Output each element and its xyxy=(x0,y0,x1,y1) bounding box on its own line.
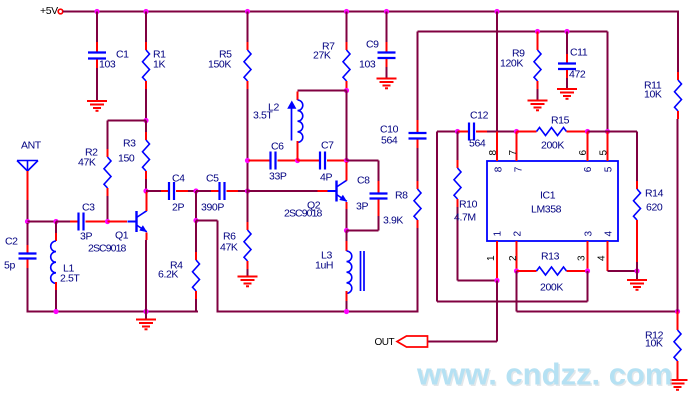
node L3 bottom / rail xyxy=(344,309,349,314)
svg-text:103: 103 xyxy=(99,59,116,71)
node top rail / pin8 drop xyxy=(494,9,499,14)
pin R14 top lead xyxy=(636,181,638,189)
node ANT / C2 / base line xyxy=(25,219,30,224)
wire C9 to ground xyxy=(386,67,388,78)
node C7 / Q2 collector / C8 xyxy=(344,158,349,163)
wire C9 top xyxy=(386,12,388,43)
svg-text:3P: 3P xyxy=(356,201,368,213)
antenna ANT symbol xyxy=(17,161,38,172)
svg-text:7: 7 xyxy=(508,150,519,156)
pin C4 left lead xyxy=(161,190,169,192)
pin C5 right lead xyxy=(227,190,239,192)
wire Q2 base from R5 node xyxy=(249,190,318,192)
svg-text:C4: C4 xyxy=(172,173,185,185)
wire feedback up to pin3 xyxy=(587,271,589,302)
svg-text:C5: C5 xyxy=(206,173,219,185)
wire C8 top horiz xyxy=(347,160,379,162)
resistor R3 xyxy=(143,140,150,171)
svg-text:120K: 120K xyxy=(500,58,523,70)
pin L3 bottom lead xyxy=(346,291,348,301)
capacitor C8 xyxy=(370,194,388,199)
pin Q2 base lead xyxy=(318,190,328,192)
wire R10 top xyxy=(457,132,459,161)
svg-text:+5V: +5V xyxy=(40,5,58,17)
wire Q1 emitter down xyxy=(145,240,147,312)
wire emitter rail xyxy=(218,311,418,313)
pin R8 bottom lead xyxy=(417,220,419,228)
transistor Q2 xyxy=(328,180,348,201)
svg-text:3.5T: 3.5T xyxy=(253,110,273,122)
wire C5 to R5 column xyxy=(238,190,248,192)
node top rail / R7 xyxy=(344,9,349,14)
svg-text:620: 620 xyxy=(646,202,663,214)
ground below C11 xyxy=(557,89,577,99)
wire C8 top vert xyxy=(378,161,380,182)
wire R3 bottom xyxy=(145,179,147,191)
pin Q1 collector lead xyxy=(146,192,148,211)
arrow on L2 (tuning) xyxy=(287,101,296,141)
pin L2 bottom lead xyxy=(297,141,299,161)
inductor L2 xyxy=(298,100,303,142)
resistor R12 xyxy=(674,330,681,361)
wire pin6 node to pin5 node xyxy=(588,131,608,133)
wire rail down to pin5 xyxy=(607,32,609,132)
pin C10 bottom lead xyxy=(417,140,419,149)
pin C6 left lead xyxy=(249,160,271,162)
node Q2 emitter / C8 bottom / L3 xyxy=(344,228,349,233)
svg-text:5: 5 xyxy=(604,166,615,172)
capacitor C6 xyxy=(271,152,276,170)
node R11 / R12 / pin2 rail xyxy=(675,309,680,314)
capacitor C1 xyxy=(88,53,106,59)
node top rail / R1 xyxy=(143,9,148,14)
power +5V terminal xyxy=(58,9,63,14)
svg-text:R3: R3 xyxy=(123,138,136,150)
svg-text:103: 103 xyxy=(359,59,376,71)
svg-text:390P: 390P xyxy=(201,202,224,214)
node top rail / R5 xyxy=(245,9,250,14)
node R4 top xyxy=(193,218,198,223)
wire pin1 to OUT xyxy=(428,341,497,343)
resistor R8 xyxy=(414,189,421,220)
svg-text:C1: C1 xyxy=(116,49,129,61)
pin L2 top lead xyxy=(297,92,299,101)
pin R9 bottom lead xyxy=(537,81,539,89)
wire R2 bottom to base line xyxy=(107,196,109,222)
svg-text:472: 472 xyxy=(569,69,586,81)
svg-text:R10: R10 xyxy=(459,199,478,211)
inductor L1 xyxy=(51,241,56,283)
pin R6 bottom lead xyxy=(247,261,249,269)
pin R10 top lead xyxy=(457,160,459,168)
svg-text:5p: 5p xyxy=(4,260,15,272)
svg-text:564: 564 xyxy=(381,135,398,147)
resistor R15 xyxy=(537,128,567,136)
pin C9 bottom lead xyxy=(386,59,388,67)
svg-text:6: 6 xyxy=(583,166,594,172)
svg-text:4: 4 xyxy=(604,231,615,237)
wire C2 bottom xyxy=(27,268,29,313)
resistor R9 xyxy=(534,50,541,81)
transistor Q1 xyxy=(128,211,148,232)
svg-text:8: 8 xyxy=(494,166,505,172)
wire node to C5 xyxy=(196,190,211,192)
wire Q2 emitter down xyxy=(346,209,348,231)
pin R7 bottom lead xyxy=(346,81,348,90)
pin C6 right lead xyxy=(278,160,298,162)
resistor R6 xyxy=(244,230,251,261)
pin L3 top lead xyxy=(346,241,348,251)
node pin1 / R10 bottom xyxy=(494,278,499,283)
svg-text:3: 3 xyxy=(584,231,595,237)
wire R1 bottom to node xyxy=(145,89,147,120)
svg-text:2P: 2P xyxy=(172,202,184,214)
pin C1 top lead xyxy=(96,42,98,52)
wire R11 bottom run xyxy=(677,119,679,312)
svg-text:4.7M: 4.7M xyxy=(454,212,476,224)
node R9 top xyxy=(535,29,540,34)
capacitor C5 xyxy=(220,182,225,200)
wire collector node to C4 xyxy=(146,190,161,192)
resistor R4 xyxy=(193,260,200,291)
svg-text:R13: R13 xyxy=(541,251,560,263)
pin L1 bottom lead xyxy=(55,282,57,290)
wire C11 to ground xyxy=(566,78,568,89)
wire C10 to R8 xyxy=(417,148,419,181)
pin R1 top lead xyxy=(145,42,147,50)
node R10 top / C12 left xyxy=(455,129,460,134)
svg-text:R15: R15 xyxy=(551,115,570,127)
capacitor C9 xyxy=(378,53,396,59)
wire R5 top xyxy=(247,12,249,43)
pin C12 right lead xyxy=(476,131,487,133)
svg-text:27K: 27K xyxy=(313,50,331,62)
pin C8 bottom lead xyxy=(378,200,380,217)
node top rail / C1 xyxy=(94,9,99,14)
pin Q1 emitter lead xyxy=(146,233,148,241)
svg-text:5: 5 xyxy=(599,150,610,156)
wire top +5V rail xyxy=(63,11,679,13)
wire pin2 rail right xyxy=(517,311,678,313)
pin R10 bottom lead xyxy=(457,199,459,207)
wire R10 bottom horiz xyxy=(458,280,498,282)
resistor R10 xyxy=(454,168,461,199)
svg-text:6: 6 xyxy=(578,150,589,156)
watermark www.cndzz.com xyxy=(416,357,674,394)
node top rail / C9 xyxy=(384,9,389,14)
wire R3 top xyxy=(145,121,147,133)
pin C3 left lead xyxy=(70,221,79,223)
svg-text:3.9K: 3.9K xyxy=(383,215,403,227)
svg-text:C9: C9 xyxy=(366,39,379,51)
ground below C1 xyxy=(87,101,107,111)
pin ANT lead xyxy=(27,171,29,200)
wire R4 bypass horiz xyxy=(196,220,218,222)
resistor R1 xyxy=(143,50,150,81)
pin R1 bottom lead xyxy=(145,81,147,89)
wire C4 to node xyxy=(188,190,196,192)
wire R7 node down to C7 xyxy=(346,91,348,161)
pin C10 top lead xyxy=(417,120,419,133)
wire C10 top vert xyxy=(417,32,419,121)
wire R10 bottom vert xyxy=(457,207,459,281)
pin 5 stub xyxy=(607,132,609,162)
svg-text:C12: C12 xyxy=(470,110,489,122)
svg-text:2: 2 xyxy=(513,231,524,237)
svg-text:3: 3 xyxy=(577,255,588,261)
wire pin4 to ground node xyxy=(608,270,638,272)
wire R9 to ground xyxy=(537,89,539,100)
pin R11 bottom lead xyxy=(677,111,679,119)
pin C8 top lead xyxy=(378,181,380,193)
svg-text:C6: C6 xyxy=(271,141,284,153)
pin R4 bottom lead xyxy=(195,291,197,299)
wire C1 to ground xyxy=(96,68,98,100)
svg-text:C11: C11 xyxy=(570,47,588,59)
wire R6 to ground xyxy=(247,269,249,276)
pin R5 bottom lead xyxy=(247,81,249,89)
svg-text:1: 1 xyxy=(493,231,504,237)
svg-text:C3: C3 xyxy=(82,202,95,214)
ground below pin4/R14 xyxy=(627,280,647,290)
capacitor C7 xyxy=(320,152,325,170)
wire R4 node down xyxy=(195,191,197,221)
pin 7 stub xyxy=(516,132,518,162)
wire R4 bottom xyxy=(195,299,197,313)
node R5/R6/C5/base xyxy=(245,188,250,193)
ground below C9 xyxy=(377,79,397,89)
wire L1 top xyxy=(55,222,57,234)
wire C8 bottom horiz xyxy=(347,230,379,232)
svg-text:2SC9018: 2SC9018 xyxy=(284,208,323,220)
wire L3 bottom xyxy=(346,301,348,312)
wire C1 top xyxy=(96,12,98,43)
capacitor C3 xyxy=(79,213,84,231)
node L1 bottom / rail xyxy=(53,309,58,314)
node R3 bottom / Q1 collector / C4 xyxy=(143,188,148,193)
wire ground stub xyxy=(145,312,147,320)
wire R4 top segment xyxy=(195,221,197,253)
svg-text:2.5T: 2.5T xyxy=(60,273,80,285)
resistor R7 xyxy=(343,50,350,81)
pin C7 left lead xyxy=(298,160,321,162)
svg-text:10K: 10K xyxy=(644,89,662,101)
svg-text:1K: 1K xyxy=(153,59,165,71)
node pin3 / R13 right xyxy=(585,268,590,273)
pin R3 top lead xyxy=(145,132,147,140)
pin R13 left lead xyxy=(517,270,537,272)
resistor R14 xyxy=(634,189,641,220)
pin R6 top lead xyxy=(247,222,249,230)
wire R7 node to L2 xyxy=(298,90,347,92)
svg-text:2: 2 xyxy=(508,255,519,261)
pin 8 stub xyxy=(496,132,498,162)
node pin2 / R13 left xyxy=(514,268,519,273)
pin R15 right lead xyxy=(567,131,588,133)
pin 1 stub xyxy=(496,241,498,281)
svg-text:C7: C7 xyxy=(321,140,334,152)
node pin7 / R15 left xyxy=(514,129,519,134)
pin R14 bottom lead xyxy=(636,220,638,262)
svg-text:2SC9018: 2SC9018 xyxy=(88,243,127,255)
core of L3 xyxy=(361,251,365,291)
ground below R9 xyxy=(528,101,548,111)
svg-text:200K: 200K xyxy=(540,282,563,294)
op-amp IC1 LM358 xyxy=(487,161,618,241)
pin C5 left lead xyxy=(211,190,220,192)
inductor L3 xyxy=(347,251,352,293)
pin Q1 base lead xyxy=(108,221,128,223)
svg-text:C2: C2 xyxy=(5,236,18,248)
node R1/R2/R3 xyxy=(143,118,148,123)
svg-text:4P: 4P xyxy=(320,172,332,184)
pin 3 stub xyxy=(587,241,589,271)
pin R4 top lead xyxy=(195,252,197,260)
pin C4 right lead xyxy=(176,190,188,192)
wire ANT to base line xyxy=(27,200,29,222)
wire R2 top vertical xyxy=(107,121,109,150)
wire pin1 down xyxy=(496,281,498,342)
wire R1 top xyxy=(145,12,147,43)
pin C11 bottom lead xyxy=(566,70,568,78)
svg-text:8: 8 xyxy=(488,150,499,156)
svg-text:200K: 200K xyxy=(541,140,564,152)
svg-text:C8: C8 xyxy=(357,175,370,187)
wire top rail down to pin8 xyxy=(496,12,498,132)
resistor R13 xyxy=(537,267,567,275)
ground below R6 xyxy=(238,277,258,287)
wire R5 bottom run xyxy=(247,89,249,191)
wire R4 bypass vert xyxy=(217,221,219,313)
wire C12 corner horiz xyxy=(437,131,458,133)
pin R7 top lead xyxy=(346,42,348,50)
resistor R2 xyxy=(104,157,111,188)
node C6 / C7 / L2 bottom xyxy=(295,158,300,163)
pin C1 bottom lead xyxy=(96,60,98,69)
wire R14 bottom xyxy=(636,262,638,271)
pin R8 top lead xyxy=(417,181,419,189)
svg-text:1: 1 xyxy=(486,255,497,261)
capacitor C2 xyxy=(19,254,37,259)
wire R8 bottom xyxy=(417,228,419,313)
wire ground stub pin4 xyxy=(636,271,638,280)
wire C8 bottom vert xyxy=(378,216,380,231)
wire C2 top xyxy=(27,223,29,245)
wire pin5 node to R14 xyxy=(608,131,638,133)
wire feedback bottom horiz xyxy=(437,301,588,303)
pin 4 stub xyxy=(607,241,609,271)
pin R3 bottom lead xyxy=(145,171,147,179)
pin R12 top lead xyxy=(677,312,679,331)
resistor R5 xyxy=(244,50,251,81)
wire AGC rail xyxy=(418,31,608,33)
svg-text:R8: R8 xyxy=(395,190,408,202)
wire right edge drop to R11 xyxy=(677,12,679,73)
wire R7 top xyxy=(346,12,348,43)
ground below R12 xyxy=(668,380,688,390)
resistor R11 xyxy=(675,80,682,111)
pin R2 top lead xyxy=(107,149,109,157)
node C4/C5/R4 top xyxy=(193,188,198,193)
svg-text:3P: 3P xyxy=(80,231,92,243)
svg-text:6.2K: 6.2K xyxy=(158,269,178,281)
pin R11 top lead xyxy=(677,72,679,80)
pin C2 top lead xyxy=(27,245,29,253)
svg-text:33P: 33P xyxy=(269,171,287,183)
capacitor C12 xyxy=(469,123,474,141)
node R7 bottom / L2 top xyxy=(344,88,349,93)
svg-text:150: 150 xyxy=(118,153,135,165)
node R2 bottom / base line xyxy=(105,219,110,224)
wire left ground rail xyxy=(27,311,199,313)
wire C12 to pin7 node xyxy=(487,131,517,133)
svg-text:47K: 47K xyxy=(220,242,238,254)
pin R13 right lead xyxy=(567,270,588,272)
wire L1 bottom xyxy=(55,290,57,312)
capacitor C10 xyxy=(409,133,427,139)
wire R6 top xyxy=(247,191,249,222)
svg-text:1uH: 1uH xyxy=(315,260,333,272)
node pin4 / R14 / ground xyxy=(634,268,639,273)
wire base line left xyxy=(28,221,57,223)
node C11 top xyxy=(564,29,569,34)
pin R12 bottom lead xyxy=(677,361,679,379)
pin R15 left lead xyxy=(517,131,537,133)
pin L1 top lead xyxy=(55,233,57,241)
svg-text:IC1: IC1 xyxy=(540,190,556,202)
wire L1node to C3 xyxy=(56,221,70,223)
pin 2 stub xyxy=(516,241,518,271)
node pin5 / R14 wire xyxy=(605,129,610,134)
svg-text:R14: R14 xyxy=(645,188,664,200)
svg-text:150K: 150K xyxy=(208,59,231,71)
wire R14 top vert xyxy=(636,132,638,182)
svg-text:10K: 10K xyxy=(645,338,663,350)
pin C2 bottom lead xyxy=(27,260,29,269)
ground below emitter rail xyxy=(136,320,156,330)
wire L3 top xyxy=(346,231,348,242)
pin C9 top lead xyxy=(386,42,388,52)
svg-text:4: 4 xyxy=(597,255,608,261)
node L1 top xyxy=(53,219,58,224)
svg-text:OUT: OUT xyxy=(375,337,395,348)
pin C7 right lead xyxy=(327,160,347,162)
capacitor C4 xyxy=(169,182,174,200)
pin C11 top lead xyxy=(566,54,568,63)
wire node to R2 top xyxy=(108,120,147,122)
port OUT arrow xyxy=(397,336,428,347)
wire C11 top xyxy=(566,32,568,55)
svg-text:47K: 47K xyxy=(78,157,96,169)
pin C12 left lead xyxy=(458,131,470,133)
pin Q2 collector lead xyxy=(346,162,348,181)
svg-text:564: 564 xyxy=(469,138,486,150)
svg-text:Q1: Q1 xyxy=(115,230,129,242)
node pin6 / R15 right xyxy=(585,129,590,134)
wire C12 corner vert xyxy=(436,132,438,302)
pin R9 top lead xyxy=(537,32,539,51)
pin 6 stub xyxy=(587,132,589,162)
capacitor C11 xyxy=(558,64,576,70)
node R5 / C6 left xyxy=(245,158,250,163)
pin R5 top lead xyxy=(247,42,249,50)
svg-text:7: 7 xyxy=(514,166,525,172)
wire pin2 down xyxy=(516,271,518,312)
svg-text:LM358: LM358 xyxy=(531,204,562,216)
pin C3 right lead xyxy=(86,221,108,223)
svg-text:www. cndzz. com: www. cndzz. com xyxy=(416,357,673,392)
node Q1 emitter / rail ground xyxy=(143,309,148,314)
